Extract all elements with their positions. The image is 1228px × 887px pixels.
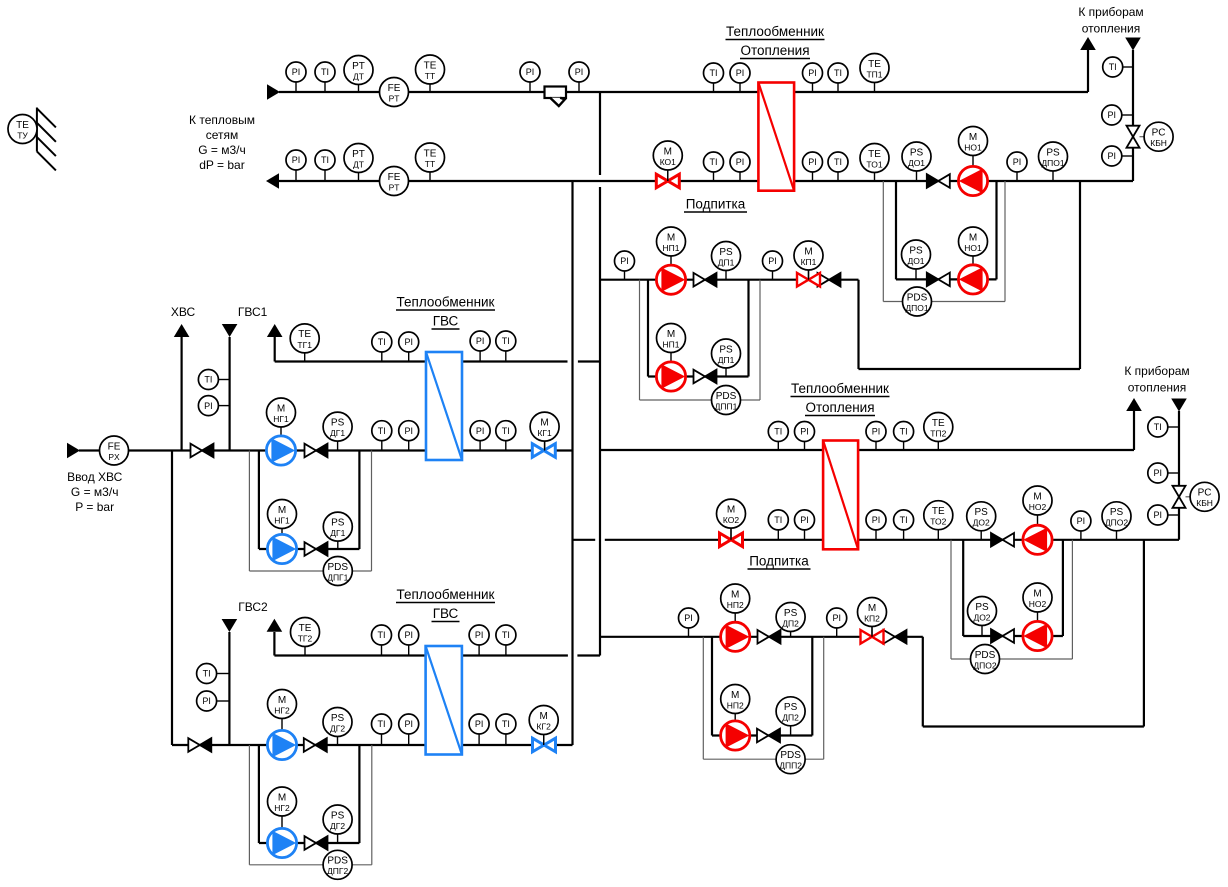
svg-text:PI: PI (808, 157, 817, 167)
svg-text:отопления: отопления (1082, 22, 1140, 36)
svg-text:ГВС: ГВС (433, 606, 459, 621)
svg-text:Теплообменник: Теплообменник (726, 24, 824, 39)
svg-text:TI: TI (774, 427, 782, 437)
svg-text:TT: TT (425, 159, 435, 169)
svg-text:ДО1: ДО1 (907, 256, 924, 266)
svg-text:PI: PI (1108, 110, 1117, 120)
svg-text:Подпитка: Подпитка (749, 554, 809, 569)
svg-text:ДПП1: ДПП1 (715, 401, 738, 411)
svg-text:ТГ2: ТГ2 (298, 633, 313, 643)
svg-text:TI: TI (710, 157, 718, 167)
svg-text:PS: PS (910, 147, 924, 158)
svg-text:М: М (731, 589, 739, 600)
svg-text:М: М (727, 504, 735, 515)
svg-text:TE: TE (424, 60, 437, 71)
svg-text:PT: PT (352, 61, 365, 72)
svg-text:TI: TI (502, 336, 510, 346)
svg-text:TI: TI (710, 68, 718, 78)
svg-text:FE: FE (108, 441, 121, 452)
svg-text:PI: PI (404, 719, 413, 729)
svg-text:PS: PS (331, 517, 345, 528)
svg-text:М: М (277, 403, 285, 414)
svg-text:НП2: НП2 (727, 600, 744, 610)
svg-text:ТО2: ТО2 (930, 517, 946, 527)
svg-text:НП2: НП2 (727, 700, 744, 710)
svg-text:PI: PI (832, 613, 841, 623)
svg-text:PS: PS (1110, 507, 1124, 518)
svg-text:PI: PI (800, 515, 809, 525)
svg-text:TI: TI (502, 719, 510, 729)
svg-text:отопления: отопления (1128, 381, 1186, 395)
svg-text:КБН: КБН (1196, 498, 1213, 508)
svg-text:К приборам: К приборам (1078, 5, 1143, 19)
svg-text:КО1: КО1 (660, 157, 676, 167)
svg-text:PT: PT (389, 93, 400, 103)
svg-text:PC: PC (1198, 488, 1212, 499)
svg-text:ДТ: ДТ (353, 159, 364, 169)
svg-text:PI: PI (204, 401, 213, 411)
svg-text:FE: FE (388, 83, 401, 94)
svg-text:TE: TE (299, 623, 312, 634)
svg-text:PI: PI (476, 426, 485, 436)
svg-text:PI: PI (292, 155, 301, 165)
svg-text:М: М (278, 792, 286, 803)
svg-text:КП1: КП1 (801, 257, 817, 267)
svg-text:dP = bar: dP = bar (199, 158, 244, 172)
svg-text:НГ2: НГ2 (274, 803, 290, 813)
svg-text:PS: PS (719, 344, 733, 355)
svg-text:ДП1: ДП1 (718, 257, 735, 267)
svg-text:ДГ1: ДГ1 (330, 528, 345, 538)
svg-text:КБН: КБН (1150, 138, 1167, 148)
svg-text:ДПГ1: ДПГ1 (327, 572, 348, 582)
svg-text:ДГ1: ДГ1 (330, 428, 345, 438)
svg-text:PS: PS (975, 507, 989, 518)
svg-text:М: М (540, 417, 548, 428)
svg-text:М: М (1033, 491, 1041, 502)
svg-text:М: М (804, 246, 812, 257)
svg-text:ДП2: ДП2 (782, 618, 799, 628)
svg-text:ДПО1: ДПО1 (905, 303, 928, 313)
svg-text:ДО2: ДО2 (973, 518, 990, 528)
svg-text:TI: TI (378, 337, 386, 347)
svg-text:Теплообменник: Теплообменник (791, 381, 889, 396)
svg-text:М: М (969, 232, 977, 243)
svg-text:G = м3/ч: G = м3/ч (198, 143, 246, 157)
svg-text:TI: TI (321, 67, 329, 77)
svg-text:ТП2: ТП2 (930, 428, 946, 438)
svg-text:PI: PI (1154, 510, 1163, 520)
svg-text:ДПГ2: ДПГ2 (327, 866, 348, 876)
svg-text:PI: PI (620, 256, 629, 266)
svg-text:P = bar: P = bar (75, 500, 114, 514)
svg-text:PI: PI (684, 613, 693, 623)
svg-text:TI: TI (1154, 422, 1162, 432)
svg-text:TE: TE (868, 149, 881, 160)
svg-text:TE: TE (868, 59, 881, 70)
svg-text:PS: PS (975, 602, 989, 613)
svg-text:PI: PI (736, 68, 745, 78)
svg-text:TI: TI (204, 375, 212, 385)
svg-text:PI: PI (475, 719, 484, 729)
svg-text:ТУ: ТУ (17, 130, 28, 140)
svg-text:М: М (278, 695, 286, 706)
svg-text:PX: PX (108, 452, 120, 462)
svg-text:НГ1: НГ1 (273, 414, 289, 424)
svg-text:ДПО1: ДПО1 (1041, 158, 1064, 168)
svg-text:ДПО2: ДПО2 (973, 660, 996, 670)
svg-text:PI: PI (476, 336, 485, 346)
svg-text:М: М (1033, 588, 1041, 599)
svg-text:К тепловым: К тепловым (189, 113, 255, 127)
svg-text:КО2: КО2 (723, 515, 739, 525)
svg-text:PI: PI (404, 630, 413, 640)
svg-text:PI: PI (526, 67, 535, 77)
svg-text:PI: PI (292, 67, 301, 77)
svg-text:TI: TI (378, 426, 386, 436)
svg-text:TT: TT (425, 71, 435, 81)
svg-text:PI: PI (872, 427, 881, 437)
svg-text:TE: TE (424, 148, 437, 159)
svg-text:НГ2: НГ2 (274, 705, 290, 715)
svg-text:ДПП2: ДПП2 (779, 761, 802, 771)
svg-text:ТО1: ТО1 (866, 159, 882, 169)
svg-text:КП2: КП2 (864, 613, 880, 623)
svg-text:ДО1: ДО1 (908, 158, 925, 168)
svg-text:PT: PT (352, 149, 365, 160)
svg-text:ДП2: ДП2 (782, 713, 799, 723)
svg-text:PI: PI (1154, 468, 1163, 478)
svg-text:PDS: PDS (907, 292, 928, 303)
svg-text:TI: TI (203, 669, 211, 679)
svg-text:PI: PI (800, 427, 809, 437)
svg-text:ТП1: ТП1 (866, 69, 882, 79)
svg-text:Отопления: Отопления (740, 43, 809, 58)
svg-text:PDS: PDS (780, 750, 801, 761)
svg-text:НП1: НП1 (663, 243, 680, 253)
svg-text:Отопления: Отопления (805, 400, 874, 415)
svg-text:ДО2: ДО2 (973, 612, 990, 622)
svg-text:ДТ: ДТ (353, 71, 364, 81)
svg-text:Ввод ХВС: Ввод ХВС (67, 470, 123, 484)
svg-text:М: М (667, 232, 675, 243)
svg-text:PI: PI (475, 630, 484, 640)
svg-text:ДГ2: ДГ2 (330, 821, 345, 831)
svg-text:TI: TI (900, 427, 908, 437)
svg-text:PS: PS (331, 810, 345, 821)
svg-text:ДП1: ДП1 (718, 355, 735, 365)
svg-text:М: М (731, 690, 739, 701)
svg-text:PI: PI (768, 256, 777, 266)
svg-text:ГВС2: ГВС2 (238, 600, 268, 614)
svg-text:TI: TI (834, 68, 842, 78)
svg-text:TE: TE (932, 418, 945, 429)
svg-text:TI: TI (1109, 62, 1117, 72)
svg-text:Теплообменник: Теплообменник (397, 295, 495, 310)
svg-text:PI: PI (736, 157, 745, 167)
svg-text:PS: PS (1046, 147, 1060, 158)
svg-text:КГ2: КГ2 (537, 721, 552, 731)
svg-text:М: М (664, 146, 672, 157)
svg-text:ХВС: ХВС (171, 305, 196, 319)
svg-text:TI: TI (502, 630, 510, 640)
svg-text:М: М (667, 329, 675, 340)
svg-text:PI: PI (202, 696, 211, 706)
svg-text:TE: TE (16, 120, 29, 131)
svg-text:ТГ1: ТГ1 (297, 340, 312, 350)
svg-text:НП1: НП1 (663, 339, 680, 349)
svg-text:ГВС: ГВС (433, 314, 459, 329)
svg-text:TI: TI (321, 155, 329, 165)
svg-text:FE: FE (388, 172, 401, 183)
svg-text:ДГ2: ДГ2 (330, 723, 345, 733)
svg-text:TE: TE (932, 506, 945, 517)
svg-text:TI: TI (378, 719, 386, 729)
svg-text:НО1: НО1 (964, 243, 982, 253)
svg-text:НГ1: НГ1 (274, 515, 290, 525)
svg-text:PI: PI (808, 68, 817, 78)
svg-text:Подпитка: Подпитка (686, 197, 746, 212)
svg-text:PDS: PDS (327, 856, 348, 867)
svg-text:ГВС1: ГВС1 (238, 305, 268, 319)
svg-text:КГ1: КГ1 (537, 428, 552, 438)
svg-text:TI: TI (378, 630, 386, 640)
svg-text:PI: PI (1077, 516, 1086, 526)
svg-text:PI: PI (1013, 157, 1022, 167)
svg-text:сетям: сетям (206, 128, 239, 142)
svg-text:ДПО2: ДПО2 (1105, 518, 1128, 528)
svg-text:PI: PI (1108, 151, 1117, 161)
svg-text:PC: PC (1152, 128, 1166, 139)
svg-text:НО2: НО2 (1029, 599, 1047, 609)
svg-text:PT: PT (389, 182, 400, 192)
svg-text:PS: PS (331, 713, 345, 724)
svg-text:PI: PI (404, 426, 413, 436)
svg-text:TE: TE (298, 329, 311, 340)
svg-text:М: М (868, 603, 876, 614)
svg-text:G = м3/ч: G = м3/ч (71, 485, 119, 499)
svg-text:TI: TI (502, 426, 510, 436)
svg-text:PS: PS (719, 247, 733, 258)
svg-text:PDS: PDS (975, 650, 996, 661)
svg-text:TI: TI (900, 515, 908, 525)
svg-text:PS: PS (784, 608, 798, 619)
svg-text:PDS: PDS (716, 391, 737, 402)
svg-text:М: М (969, 132, 977, 143)
svg-text:TI: TI (834, 157, 842, 167)
svg-text:PS: PS (784, 702, 798, 713)
svg-text:PI: PI (872, 515, 881, 525)
svg-text:М: М (540, 711, 548, 722)
svg-text:PDS: PDS (328, 562, 349, 573)
svg-text:TI: TI (774, 515, 782, 525)
svg-text:PS: PS (909, 245, 923, 256)
svg-text:Теплообменник: Теплообменник (397, 587, 495, 602)
svg-text:НО1: НО1 (964, 142, 982, 152)
svg-text:М: М (278, 505, 286, 516)
svg-text:НО2: НО2 (1029, 502, 1047, 512)
svg-text:PI: PI (575, 67, 584, 77)
svg-text:PS: PS (331, 417, 345, 428)
svg-text:К приборам: К приборам (1124, 364, 1189, 378)
svg-text:PI: PI (404, 337, 413, 347)
